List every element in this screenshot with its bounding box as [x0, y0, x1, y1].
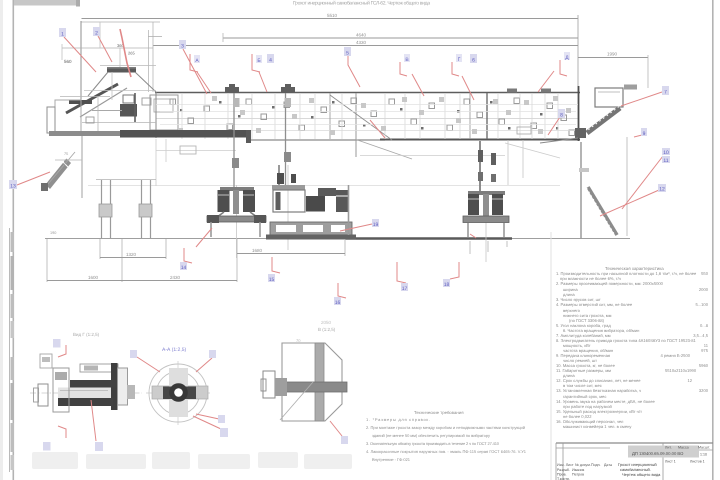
- svg-text:13: 13: [10, 184, 16, 190]
- section marker A: [190, 54, 198, 72]
- under-body small box a: [180, 146, 196, 154]
- hanger column pair 2: [285, 93, 287, 186]
- leader right ladder 1: [622, 156, 663, 209]
- balloon motor base: [372, 219, 379, 227]
- feed vertical x135: [134, 93, 136, 122]
- pedestal1 center stem: [233, 190, 239, 214]
- svg-text:550: 550: [701, 271, 709, 276]
- bottom dim line y280: [47, 280, 237, 282]
- leader body 3: [462, 76, 474, 100]
- designation cell gray: [628, 446, 699, 458]
- detail2 balloon lb: [220, 428, 228, 437]
- bottom ext line x122: [121, 239, 123, 282]
- leader motor base: [340, 224, 372, 231]
- left column 1 line a: [101, 180, 103, 238]
- left column 1 line b: [110, 180, 112, 238]
- deck bracket outline: [517, 127, 531, 134]
- pedestal2 foot right: [503, 223, 505, 237]
- body mid line: [156, 118, 578, 120]
- balloon right funnel: [662, 86, 669, 95]
- top small mark 4: [541, 89, 551, 93]
- leader right ladder 2: [600, 190, 659, 216]
- pedestal1 leg left: [213, 212, 224, 220]
- detail1 left block: [38, 384, 48, 406]
- svg-text:Пров.: Пров.: [557, 473, 567, 477]
- hanger column 1 dark segment: [233, 98, 240, 107]
- extension line left x147: [148, 30, 150, 92]
- balloon hook4: [401, 283, 408, 291]
- balloon 2: [93, 27, 100, 36]
- faint mid horizontal line: [88, 185, 560, 187]
- svg-text:4. Лакокрасочные покрытия нару: 4. Лакокрасочные покрытия наружных пов. …: [366, 449, 527, 454]
- detail1 top box: [80, 364, 118, 372]
- motor column blob right: [291, 174, 296, 183]
- top-left gray bar: [14, 0, 79, 6]
- svg-text:8: 8: [560, 113, 563, 119]
- detail1 mid band texture: [60, 390, 108, 392]
- detail2 hub hole: [174, 388, 183, 397]
- body left inner box: [150, 95, 178, 130]
- extension line right x578: [577, 15, 579, 92]
- spec area faint divider: [550, 232, 552, 480]
- bottom hook 5: [450, 262, 459, 279]
- detail1 center line: [30, 392, 142, 394]
- svg-text:ДП 130400.65.09.00.00 ВО: ДП 130400.65.09.00.00 ВО: [632, 451, 684, 456]
- detail3 cross bar: [286, 382, 347, 392]
- svg-text:2: 2: [95, 31, 98, 37]
- feed inclined plate thick: [66, 84, 118, 113]
- feed small rect a: [86, 117, 94, 123]
- svg-text:11: 11: [663, 158, 668, 164]
- leader feed 2: [98, 36, 112, 62]
- top foot bracket 1: [225, 84, 239, 92]
- feed construction vertical x62: [61, 44, 63, 60]
- balloon hook1: [180, 262, 187, 270]
- svg-text:Чертеж общего вида: Чертеж общего вида: [622, 472, 661, 477]
- feed hopper wall left: [88, 72, 108, 96]
- svg-text:Подп.: Подп.: [591, 463, 601, 467]
- leader body mid 2: [259, 72, 267, 92]
- dim line 4840: [223, 37, 578, 39]
- detail2 leader ul: [137, 357, 160, 372]
- svg-text:17: 17: [402, 286, 408, 292]
- leader feed red blob: [120, 29, 131, 77]
- svg-text:5960: 5960: [699, 363, 709, 368]
- svg-text:13. Установленная безотказная: 13. Установленная безотказная наработка,…: [556, 388, 641, 393]
- pedestal2 column dark seg d: [491, 174, 496, 182]
- feed extra line y90: [84, 90, 156, 92]
- balloon D letter: [564, 52, 570, 60]
- detail1 top-left box mark: [42, 357, 50, 362]
- motor base beam hole 1: [276, 225, 296, 232]
- title block horizontals right: [663, 449, 713, 451]
- sheet frame left line: [13, 0, 15, 480]
- svg-text:4 ремня Б-2500: 4 ремня Б-2500: [660, 353, 690, 358]
- svg-text:40: 40: [64, 159, 68, 163]
- svg-text:1600: 1600: [88, 275, 99, 280]
- feed small rect b: [142, 98, 151, 105]
- detail1 top box fill marks: [84, 366, 98, 371]
- svg-text:12: 12: [687, 378, 692, 383]
- pedestal2 foot left: [467, 223, 469, 237]
- svg-text:Технические требования: Технические требования: [414, 410, 464, 415]
- pedestal1 foot left: [210, 222, 212, 237]
- pedestal2 center stem: [483, 194, 489, 216]
- pedestal1 leg right: [250, 212, 261, 220]
- svg-text:Изм. Лист: Изм. Лист: [557, 463, 574, 467]
- motor frame box: [273, 190, 305, 212]
- viewer left strip: [0, 0, 3, 480]
- discharge funnel box: [595, 88, 623, 107]
- fines chute hatched: [46, 159, 72, 190]
- detail1 dark bar lower: [58, 398, 113, 406]
- svg-text:Лит.: Лит.: [665, 446, 672, 450]
- balloon A letter: [194, 55, 200, 63]
- detail2 balloon ul: [130, 350, 137, 358]
- svg-text:0...8: 0...8: [700, 323, 709, 328]
- svg-text:14: 14: [181, 265, 187, 271]
- screen deck bolt squares: [170, 98, 575, 136]
- detail2 leader ur: [196, 358, 212, 372]
- svg-text:12: 12: [659, 187, 665, 193]
- pedestal2 spring right: [492, 194, 503, 215]
- detail3 stem bar: [315, 343, 324, 421]
- pedestal2 top plate: [468, 191, 505, 195]
- feed dark bar: [69, 100, 92, 104]
- bottom ext line x345: [344, 239, 346, 256]
- left column 1 pad: [99, 204, 112, 217]
- bottom ext line x100: [99, 239, 101, 259]
- body bottom line left part: [250, 139, 385, 141]
- detail1 balloon bottom: [43, 442, 51, 451]
- technical requirements notes: [366, 410, 527, 462]
- detail2 inner circle: [157, 372, 200, 415]
- detail1 left vertical box: [53, 368, 69, 412]
- section marker G: [452, 62, 459, 76]
- fines chute hatch lines: [63, 162, 68, 167]
- pedestal2 spring left: [468, 194, 479, 215]
- svg-text:2430: 2430: [170, 275, 181, 280]
- svg-text:Дата: Дата: [604, 463, 612, 467]
- right inclined ladder: [588, 187, 617, 235]
- detail3 left boss small: [261, 379, 266, 391]
- body seam x356: [355, 93, 357, 157]
- detail3 plate outline: [282, 343, 342, 421]
- svg-text:Масса: Масса: [678, 446, 689, 450]
- left margin column frame: [10, 228, 15, 472]
- leader left edge: [17, 172, 50, 185]
- svg-text:машинист конвейера 1 чел. в см: машинист конвейера 1 чел. в смену: [563, 424, 632, 429]
- left columns top line: [96, 179, 156, 181]
- body diagonal cut line 1: [330, 95, 392, 140]
- feed side box: [55, 100, 81, 133]
- title block: [556, 443, 713, 480]
- bottom hook 4: [397, 262, 406, 283]
- detail3 diagonal: [280, 382, 313, 420]
- section marker D: [560, 60, 567, 76]
- svg-text:Внутренние - ГФ-021: Внутренние - ГФ-021: [372, 457, 411, 462]
- feed hopper rim: [107, 68, 136, 73]
- feed drive top box: [123, 95, 134, 103]
- svg-text:16: 16: [335, 300, 341, 306]
- detail2 balloon ur: [209, 350, 216, 358]
- feed lower box: [55, 159, 82, 161]
- construction vertical x100: [99, 22, 101, 48]
- balloon ladder 1: [662, 148, 670, 155]
- motor base beam hole 2: [303, 225, 323, 232]
- feed bottom bar light: [49, 131, 125, 136]
- detail3 leader: [330, 421, 342, 436]
- balloon 3: [179, 40, 186, 49]
- svg-text:10: 10: [663, 150, 669, 156]
- body left end wall: [155, 92, 157, 138]
- extension verticals right of pedestal2: [237, 140, 524, 262]
- body top line: [155, 92, 580, 94]
- svg-text:18: 18: [444, 282, 450, 288]
- hanger column pair 1: [233, 93, 235, 189]
- fines chute end cap: [41, 183, 48, 191]
- leader body mid 3: [538, 71, 554, 92]
- detail1 balloon top: [53, 339, 61, 348]
- feed extra vertical x112: [111, 72, 113, 100]
- title block grid verticals: [562, 443, 564, 480]
- svg-text:Г: Г: [458, 57, 461, 63]
- bottom dim line y257: [100, 257, 166, 259]
- motor columns: [278, 165, 280, 188]
- detail1 dark bar upper: [70, 380, 125, 388]
- svg-text:зданий (не менее 50 мм) обеспе: зданий (не менее 50 мм) обеспечить регул…: [372, 433, 490, 438]
- svg-text:Петров: Петров: [572, 473, 584, 477]
- svg-text:3200: 3200: [699, 388, 709, 393]
- pedestal1 base plate: [207, 216, 266, 222]
- svg-text:190: 190: [50, 231, 56, 235]
- detail2 light vertical bar: [169, 368, 188, 417]
- balloon hook3: [334, 297, 341, 305]
- ground line main: [45, 238, 630, 240]
- detail1 right tail: [127, 385, 135, 399]
- discharge funnel tab: [624, 85, 637, 90]
- body right end wall: [578, 86, 580, 141]
- body bottom line right dark: [380, 139, 580, 141]
- detail2 dark block left: [163, 387, 175, 400]
- detail1 left block small: [34, 388, 39, 402]
- svg-text:Вид Г (1:2,5): Вид Г (1:2,5): [73, 332, 100, 337]
- svg-text:5510: 5510: [327, 13, 338, 18]
- svg-text:4330: 4330: [356, 40, 367, 45]
- svg-text:Листов 1: Листов 1: [690, 460, 705, 464]
- extension line x153: [152, 22, 154, 92]
- motor right column: [348, 185, 350, 235]
- balloon right chute: [558, 109, 565, 118]
- motor base plate: [266, 235, 356, 240]
- detail1 left box top seg: [55, 372, 67, 380]
- hanger column 2 dark segment: [285, 98, 292, 107]
- detail1 balloon bottom2: [95, 442, 103, 451]
- dim line 5510 overall top: [82, 18, 579, 20]
- detail2 hub ring: [169, 383, 188, 402]
- pedestal2 spring right coils: [492, 198, 503, 200]
- body seam x330: [329, 93, 331, 139]
- ground line thick center: [345, 237, 512, 239]
- feed construction line y36: [148, 36, 162, 38]
- feed dark tick bar: [107, 67, 136, 69]
- right dim line 330: [578, 57, 648, 59]
- leader right chute: [548, 117, 560, 135]
- svg-text:70: 70: [296, 338, 301, 343]
- feed extra line y110: [92, 110, 122, 112]
- bottom red tick: [470, 234, 476, 238]
- svg-text:6: 6: [472, 58, 475, 64]
- belt guard striped: [336, 190, 348, 212]
- technical characteristics list: [556, 266, 709, 429]
- svg-text:А-А (1:2,5): А-А (1:2,5): [162, 347, 187, 353]
- svg-text:3. Окончательную обкатку грохо: 3. Окончательную обкатку грохота произво…: [366, 441, 500, 446]
- balloon 1: [59, 28, 66, 37]
- balloon V letter: [404, 54, 410, 62]
- svg-text:3: 3: [181, 44, 184, 50]
- svg-text:4. Размеры отверстий сит, мм,: 4. Размеры отверстий сит, мм, не более: [556, 302, 633, 307]
- balloon G2: [470, 54, 477, 63]
- discharge chute lower dark mark: [575, 128, 586, 138]
- feed construction vertical x81: [80, 21, 82, 133]
- svg-text:19: 19: [373, 222, 379, 228]
- feed extra line y122: [82, 122, 156, 124]
- svg-text:В (1:2,5): В (1:2,5): [318, 327, 336, 332]
- title block horizontals left: [556, 447, 610, 449]
- svg-text:Разраб.: Разраб.: [557, 468, 570, 472]
- detail3 balloon: [341, 436, 348, 444]
- detail2 balloon lr: [218, 415, 225, 423]
- bottom ext line x166: [165, 239, 167, 259]
- svg-text:7: 7: [664, 90, 667, 96]
- bottom ext line x47: [46, 239, 48, 282]
- svg-text:15: 15: [269, 277, 275, 283]
- motor base beam: [270, 222, 352, 235]
- balloon ladder 2: [658, 184, 666, 192]
- feed hopper wall right: [135, 72, 156, 92]
- leader right tick: [634, 135, 642, 137]
- title block outer top: [556, 442, 713, 444]
- svg-text:75: 75: [64, 152, 68, 156]
- detail2 crosshair h: [146, 392, 210, 394]
- feed construction line y48: [62, 47, 153, 49]
- motor frame inner strip: [276, 192, 281, 210]
- svg-text:265: 265: [128, 51, 135, 56]
- detail1 leader top: [58, 345, 66, 357]
- pedestal1 top plate: [220, 187, 254, 191]
- svg-text:2. Размеры просеивающей поверх: 2. Размеры просеивающей поверхности, мм:…: [556, 281, 664, 286]
- body diagonal cut line 2: [356, 140, 412, 160]
- leader feed 1: [64, 37, 96, 72]
- svg-text:1. *Размеры для справок.: 1. *Размеры для справок.: [366, 417, 430, 422]
- right support column pair: [580, 142, 582, 239]
- discharge chute hatched: [587, 108, 620, 133]
- detail1 mid band: [58, 388, 111, 399]
- detail1 dark vertical bar: [111, 363, 118, 410]
- balloon right small: [641, 128, 647, 136]
- pedestal1 base end left: [207, 215, 219, 223]
- fines chute edge line: [48, 152, 75, 184]
- bottom ext line x488: [487, 241, 489, 252]
- body seam x487 dark: [486, 93, 488, 139]
- feed lower vertical x82: [81, 136, 83, 198]
- right support crossbar: [579, 168, 589, 172]
- svg-text:560: 560: [64, 59, 72, 64]
- feed drive block: [120, 104, 137, 117]
- left column 2 line a: [141, 180, 143, 238]
- svg-text:Иванов: Иванов: [572, 468, 584, 472]
- hanger column 1 dark segment low: [232, 158, 239, 168]
- extension line x648: [647, 55, 649, 88]
- detail1 leader bottom: [58, 426, 66, 438]
- pedestal1 spring left coils: [218, 194, 229, 196]
- sheet frame right line: [712, 0, 714, 480]
- right extension line x627: [626, 137, 628, 236]
- feed construction box top: [81, 21, 160, 23]
- extension line x223: [222, 33, 224, 42]
- extra deck squares: [178, 96, 571, 135]
- svg-text:5510х2110х1990: 5510х2110х1990: [665, 368, 697, 373]
- svg-text:5: 5: [346, 51, 349, 57]
- faint footer artifacts: [32, 452, 352, 469]
- svg-text:2050: 2050: [321, 320, 332, 325]
- under-body diagonal right: [505, 143, 560, 158]
- leader deck right: [370, 120, 385, 138]
- detail1 top-left small box: [40, 354, 52, 368]
- deck small dark dots: [180, 101, 559, 130]
- bottom ext line x237: [236, 239, 238, 282]
- detail3 hub block: [275, 378, 287, 396]
- detail2 crosshair v: [177, 361, 179, 425]
- pedestal1 spring left: [218, 190, 230, 212]
- bottom ext line x470: [469, 241, 471, 254]
- balloon G letter: [456, 54, 462, 62]
- detail2 dark block right: [184, 387, 196, 400]
- right chute edge to body: [540, 138, 578, 143]
- leader right funnel: [621, 92, 662, 106]
- feed inclined plate thin: [80, 88, 127, 117]
- svg-text:5...100: 5...100: [695, 302, 708, 307]
- pedestal1 foot right: [259, 222, 261, 237]
- svg-text:1320: 1320: [126, 252, 137, 257]
- discharge funnel inner line: [598, 91, 620, 93]
- svg-text:2000: 2000: [699, 287, 709, 292]
- pedestal2 column pair: [479, 141, 481, 193]
- pedestal1 base end right: [254, 215, 266, 223]
- left column 2 pad: [139, 204, 152, 217]
- detail3 left boss: [263, 371, 275, 398]
- leader C: [183, 49, 207, 94]
- motor column blob left: [277, 173, 284, 184]
- pedestal2 base plate: [463, 216, 509, 223]
- svg-text:975: 975: [701, 348, 709, 353]
- pedestal2 spring left coils: [468, 198, 479, 200]
- body left inner box2: [154, 99, 173, 112]
- detail2 leader lr: [196, 414, 219, 419]
- balloon hook2: [268, 274, 275, 282]
- feed construction vertical x120: [119, 48, 121, 68]
- title block center-right verticals: [662, 443, 664, 480]
- pedestal1 spring right: [243, 190, 255, 212]
- bottom hook 1: [184, 248, 192, 263]
- bar end tail: [246, 130, 251, 143]
- balloon B letter: [256, 55, 262, 63]
- body faint seams: [156, 93, 578, 139]
- svg-text:4640: 4640: [356, 33, 367, 38]
- balloon 4: [267, 54, 274, 63]
- hanger column 2 dark segment low: [284, 152, 291, 162]
- balloon left edge: [9, 180, 17, 189]
